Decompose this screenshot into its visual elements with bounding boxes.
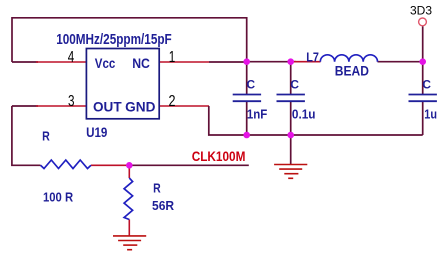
wire: 1nF cap bottom lead	[246, 102, 248, 136]
wire: inductor right side to 3D3 node	[378, 61, 423, 63]
pin 2 stub of U19	[159, 105, 209, 107]
svg-text:C: C	[290, 78, 299, 92]
resistor R2 56R zigzag	[124, 178, 133, 220]
svg-text:100 R: 100 R	[43, 191, 73, 205]
wire: ground stem at 0.1u	[290, 135, 292, 165]
wire: 0.1u cap bottom lead	[290, 102, 292, 136]
ground symbol at 56R	[113, 236, 146, 250]
node: 1nF bottom junction	[243, 132, 250, 139]
svg-text:3D3: 3D3	[410, 6, 432, 18]
ground symbol at 0.1u	[274, 165, 307, 179]
wire: red segment into inductor L7	[293, 61, 321, 63]
pin 4 stub of U19	[36, 61, 86, 63]
power symbol 3D3 circle	[419, 18, 427, 26]
wire: 56R top lead	[128, 165, 130, 178]
pin 1 stub of U19	[159, 61, 209, 63]
resistor R1 100R zigzag	[41, 160, 92, 169]
svg-text:2: 2	[169, 93, 176, 110]
wire: left segment to pin 4	[12, 61, 38, 63]
node: CLK100M junction	[126, 162, 133, 169]
wire: pin2 down to ground rail	[209, 106, 423, 135]
wire: top rail from 1nF node through 0.1u node to inductor	[247, 61, 296, 63]
svg-text:1: 1	[169, 49, 176, 66]
svg-text:Vcc: Vcc	[95, 56, 116, 71]
capacitor C2 0.1u plates	[277, 95, 305, 102]
svg-text:GND: GND	[125, 100, 156, 115]
capacitor C1 1nF plates	[233, 95, 261, 102]
svg-text:0.1u: 0.1u	[292, 108, 316, 122]
svg-text:R: R	[153, 182, 161, 196]
svg-text:OUT: OUT	[93, 100, 122, 115]
wire: top feedback loop from Vcc pin to decoupling rail	[12, 18, 247, 62]
svg-text:L7: L7	[306, 50, 319, 65]
node: 1nF top junction	[243, 58, 250, 65]
node: 0.1u top junction	[287, 58, 294, 65]
node: 0.1u bottom junction	[287, 132, 294, 139]
svg-text:CLK100M: CLK100M	[192, 148, 246, 164]
svg-text:1nF: 1nF	[247, 107, 268, 121]
svg-text:100MHz/25ppm/15pF: 100MHz/25ppm/15pF	[56, 31, 172, 48]
wire: CLK100M net from junction under label	[129, 164, 249, 166]
wire: 3D3 power drop	[422, 26, 424, 62]
inductor L7 coil	[320, 55, 377, 62]
svg-text:U19: U19	[86, 124, 107, 140]
wire: OUT loop left vertical	[12, 106, 41, 165]
wire: resistor 100R right lead (red)	[91, 164, 129, 166]
svg-text:BEAD: BEAD	[335, 63, 369, 78]
svg-text:R: R	[42, 130, 50, 144]
wire: left segment to pin 3	[12, 105, 38, 107]
wire: 56R bottom lead to ground	[128, 220, 130, 237]
capacitor C3 1u plates	[409, 95, 437, 102]
wire: 0.1u cap top lead	[290, 62, 292, 94]
node: 3D3 junction	[419, 58, 426, 65]
svg-text:3: 3	[68, 93, 75, 110]
wire: 1nF cap top lead	[246, 62, 248, 94]
svg-text:56R: 56R	[152, 199, 174, 213]
oscillator U19 body	[86, 49, 159, 119]
svg-text:4: 4	[68, 49, 75, 66]
svg-text:1u: 1u	[424, 107, 437, 121]
svg-text:C: C	[247, 78, 256, 92]
svg-text:NC: NC	[132, 56, 150, 71]
wire: 1u cap bottom lead	[422, 102, 424, 136]
wire: 1u cap top lead	[422, 62, 424, 94]
wire: pin1 to node rail	[209, 61, 247, 63]
pin 3 stub of U19	[36, 105, 86, 107]
svg-text:C: C	[422, 78, 431, 92]
